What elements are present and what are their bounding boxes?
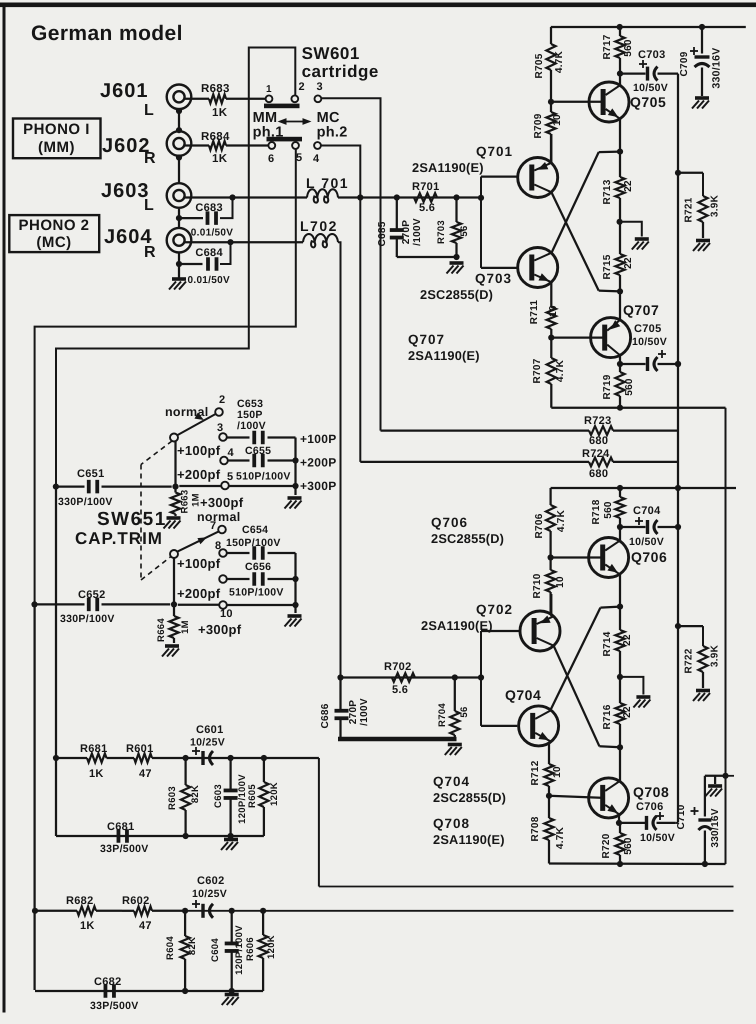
resistor R720 xyxy=(601,823,634,867)
resistor R724 xyxy=(360,448,678,480)
ground jack shells xyxy=(169,279,186,290)
switch SW651 pin9 xyxy=(219,575,227,583)
svg-text:Q704: Q704 xyxy=(433,774,470,789)
svg-text:C602: C602 xyxy=(197,875,225,887)
svg-text:L702: L702 xyxy=(300,218,338,234)
svg-text:R714: R714 xyxy=(602,631,613,656)
svg-text:C704: C704 xyxy=(633,505,661,517)
svg-text:R713: R713 xyxy=(602,179,613,204)
wire Q702/Q704 base link xyxy=(478,631,520,726)
svg-text:2SA1190(E): 2SA1190(E) xyxy=(412,160,484,175)
svg-text:330P/100V: 330P/100V xyxy=(60,613,115,625)
svg-text:+100P: +100P xyxy=(300,432,337,446)
svg-text:Q701: Q701 xyxy=(476,144,513,159)
wire bias to bus corner xyxy=(318,758,320,887)
svg-text:120P/100V: 120P/100V xyxy=(234,925,245,975)
capacitor C703 xyxy=(620,49,678,94)
svg-text:C703: C703 xyxy=(638,49,666,61)
svg-text:Q705: Q705 xyxy=(630,94,666,110)
svg-text:2SA1190(E): 2SA1190(E) xyxy=(408,348,480,363)
wire Q705 base xyxy=(551,101,604,103)
svg-text:560: 560 xyxy=(624,378,635,396)
svg-text:680: 680 xyxy=(589,468,608,480)
svg-text:3.9K: 3.9K xyxy=(710,194,721,217)
svg-text:330/16V: 330/16V xyxy=(710,808,721,847)
wire R702 input row xyxy=(337,674,481,680)
svg-text:R718: R718 xyxy=(591,499,602,524)
capacitor C654 row pin8 xyxy=(226,524,296,560)
wire R713/R715 mid to ground xyxy=(620,222,642,237)
svg-text:270P: 270P xyxy=(348,700,359,725)
resistor R712 xyxy=(530,760,563,799)
ground trim bus upper xyxy=(285,498,302,509)
trim bus lower xyxy=(292,553,298,613)
label +300P xyxy=(300,479,337,493)
label +200pf lower xyxy=(177,586,221,601)
wire Q702 emitter up xyxy=(550,594,552,616)
ground C604 xyxy=(222,995,239,1006)
svg-text:C682: C682 xyxy=(94,976,122,988)
switch SW601 direction arrow xyxy=(278,118,312,125)
svg-text:J601: J601 xyxy=(100,80,149,102)
capacitor C655 row pin4 xyxy=(228,445,296,483)
wire Q706 emitter down xyxy=(619,527,621,541)
svg-text:4: 4 xyxy=(228,447,235,459)
switch SW651 pin5 xyxy=(221,471,233,489)
capacitor C603 xyxy=(213,758,238,836)
wire C682 bottom row xyxy=(35,988,263,994)
connector J602 label xyxy=(102,135,156,167)
wire Q707 base xyxy=(551,336,605,338)
connector J602 xyxy=(167,131,192,156)
wire C686 bottom thick xyxy=(338,737,457,741)
wire Q702 collector diag xyxy=(554,646,620,747)
inductor L702 xyxy=(300,218,341,678)
switch SW601 pin5 xyxy=(292,142,302,164)
wire R663 node to pin5 xyxy=(179,485,221,487)
resistor R721 xyxy=(678,173,721,238)
wire pin4 to L701 node and R724 xyxy=(321,146,364,462)
svg-text:R605: R605 xyxy=(247,784,258,808)
transistor Q704 header xyxy=(433,774,506,805)
wire C685 bottom xyxy=(397,254,460,260)
svg-text:R664: R664 xyxy=(156,618,167,642)
label +300pf lower xyxy=(198,622,242,637)
capacitor C653 row pin3 xyxy=(227,398,296,444)
svg-text:1K: 1K xyxy=(212,107,228,119)
svg-text:Q707: Q707 xyxy=(408,332,445,347)
connector J604 xyxy=(167,228,192,253)
switch SW601 label xyxy=(302,44,379,81)
svg-text:0.01/50V: 0.01/50V xyxy=(191,228,233,239)
svg-text:R719: R719 xyxy=(602,374,613,399)
svg-text:C655: C655 xyxy=(245,445,271,457)
ground C709 xyxy=(692,98,709,109)
svg-text:C686: C686 xyxy=(320,703,331,728)
capacitor C686 xyxy=(320,678,370,740)
svg-text:+300pf: +300pf xyxy=(200,495,244,510)
transistor Q708 xyxy=(589,778,629,818)
wire Q701/Q703 base link xyxy=(481,177,518,268)
resistor R716 xyxy=(602,677,633,751)
svg-text:1K: 1K xyxy=(89,768,104,780)
transistor Q703 label xyxy=(420,271,512,302)
ground R714/R716 mid xyxy=(633,697,650,708)
svg-text:+200pf: +200pf xyxy=(177,467,221,482)
svg-text:R716: R716 xyxy=(602,704,613,729)
svg-text:C705: C705 xyxy=(634,323,662,335)
label +100pf lower xyxy=(177,556,221,571)
wire MM-R vertical x=35 xyxy=(32,604,38,990)
svg-text:10/50V: 10/50V xyxy=(640,832,675,844)
svg-text:C709: C709 xyxy=(679,51,690,76)
transistor Q706 xyxy=(589,538,629,578)
transistor Q702 header xyxy=(421,602,513,633)
svg-text:10/50V: 10/50V xyxy=(629,536,664,548)
svg-text:510P/100V: 510P/100V xyxy=(236,471,291,483)
transistor Q704 xyxy=(519,706,559,746)
resistor R682 xyxy=(35,895,122,932)
svg-text:(MM): (MM) xyxy=(38,139,75,156)
PHONO2 (MC) box xyxy=(9,215,99,252)
ground R722 xyxy=(693,691,710,702)
switch SW601 MC ph.2 label xyxy=(317,110,348,141)
svg-text:R: R xyxy=(144,150,156,167)
svg-text:R601: R601 xyxy=(126,743,154,755)
svg-text:5.6: 5.6 xyxy=(392,684,408,696)
svg-text:R705: R705 xyxy=(534,53,545,78)
svg-text:2: 2 xyxy=(219,394,225,406)
svg-text:330P/100V: 330P/100V xyxy=(58,496,113,508)
resistor R706 xyxy=(534,488,567,561)
wire mid bus xyxy=(319,886,734,888)
svg-text:normal: normal xyxy=(165,405,208,419)
switch SW601 pin4 xyxy=(313,142,321,165)
transistor Q708 label xyxy=(633,784,669,800)
resistor R663 xyxy=(171,487,202,516)
svg-text:10/50V: 10/50V xyxy=(632,336,667,348)
resistor R605 xyxy=(247,758,280,836)
svg-text:cartridge: cartridge xyxy=(302,62,379,81)
label 120P/100V lower xyxy=(234,925,245,975)
transistor Q701 xyxy=(518,158,558,198)
wire wiper lower to R664 node xyxy=(173,558,175,604)
resistor R684 xyxy=(185,131,269,165)
svg-text:Q706: Q706 xyxy=(631,549,667,565)
wire Q706 collector down xyxy=(617,574,623,610)
svg-text:6: 6 xyxy=(268,153,274,165)
capacitor C602 xyxy=(192,875,227,918)
wire pin5 down to MM-R row xyxy=(35,149,296,605)
resistor R664 xyxy=(156,604,191,643)
svg-text:R708: R708 xyxy=(530,816,541,841)
label +200pf upper xyxy=(177,467,221,482)
label +300pf upper xyxy=(200,495,244,510)
capacitor C656 row pin9 xyxy=(227,561,296,599)
svg-text:C681: C681 xyxy=(107,821,135,833)
svg-text:7: 7 xyxy=(210,520,216,532)
svg-text:4.7K: 4.7K xyxy=(555,359,566,382)
wire MM-L vertical x=56 xyxy=(53,487,59,836)
svg-text:+300P: +300P xyxy=(300,479,337,493)
wire Q705 emitter down xyxy=(617,118,623,155)
ground R713/R715 mid xyxy=(632,239,649,250)
ground trim bus lower xyxy=(285,616,302,627)
resistor R715 xyxy=(602,222,634,295)
svg-text:R707: R707 xyxy=(532,358,543,383)
capacitor C709 xyxy=(679,27,723,96)
switch SW601 pin2 xyxy=(291,81,305,102)
switch SW651 linkage dashed xyxy=(141,441,172,580)
svg-text:+200pf: +200pf xyxy=(177,586,221,601)
wire Q701 collector diag xyxy=(552,193,620,292)
resistor R705 xyxy=(534,27,565,105)
switch SW651 pin7 xyxy=(210,520,226,533)
wire Q708 emitter down xyxy=(616,814,622,826)
capacitor C706 xyxy=(619,801,676,844)
svg-text:+100pf: +100pf xyxy=(177,556,221,571)
svg-text:R604: R604 xyxy=(165,936,176,960)
resistor R704 xyxy=(437,678,470,740)
ground R664 xyxy=(162,646,179,657)
ground C686/R704 xyxy=(445,745,462,756)
svg-text:PHONO 2: PHONO 2 xyxy=(18,217,89,234)
capacitor C683 xyxy=(179,198,233,239)
svg-text:R715: R715 xyxy=(602,254,613,279)
resistor R713 xyxy=(602,152,634,225)
svg-text:4.7K: 4.7K xyxy=(556,509,567,532)
svg-text:L: L xyxy=(144,197,154,214)
svg-text:C654: C654 xyxy=(242,524,268,536)
svg-text:C604: C604 xyxy=(210,938,221,962)
ground C603 xyxy=(221,840,238,851)
svg-text:R704: R704 xyxy=(437,703,448,727)
ground C685/R703 xyxy=(447,263,464,274)
capacitor C681 xyxy=(100,821,149,855)
switch SW651 pin10 xyxy=(219,601,233,620)
svg-text:10/50V: 10/50V xyxy=(633,82,668,94)
svg-text:(MC): (MC) xyxy=(36,234,71,251)
svg-text:Q708: Q708 xyxy=(433,816,470,831)
capacitor C705 xyxy=(620,350,681,371)
label +100pf upper xyxy=(177,443,221,458)
svg-text:C684: C684 xyxy=(195,247,223,259)
switch SW651 pin3 xyxy=(217,422,227,441)
svg-text:C706: C706 xyxy=(636,801,664,813)
capacitor C604 xyxy=(210,911,239,991)
switch SW601 contact bar 6-5 xyxy=(267,137,303,142)
svg-text:10: 10 xyxy=(220,608,233,620)
svg-text:R712: R712 xyxy=(530,760,541,785)
wire Q703 collector diag xyxy=(552,152,620,253)
svg-text:10/25V: 10/25V xyxy=(190,737,225,749)
transistor Q705 label xyxy=(630,94,666,110)
resistor R701 xyxy=(412,181,440,214)
wire R707/R719 bottom rail xyxy=(551,407,725,409)
PHONO1 (MM) box xyxy=(13,119,101,159)
wire Q703 emitter down xyxy=(550,282,552,302)
resistor R718 xyxy=(591,488,625,530)
trim bus upper xyxy=(292,438,298,496)
resistor R606 xyxy=(245,911,277,991)
capacitor C652 xyxy=(31,589,177,625)
wire lower bottom rail xyxy=(549,861,726,867)
transistor Q704 label xyxy=(505,687,541,703)
svg-text:C601: C601 xyxy=(196,724,224,736)
switch SW651 pin2 xyxy=(215,394,225,416)
resistor R703 xyxy=(436,198,470,258)
svg-text:R717: R717 xyxy=(602,34,613,59)
svg-text:PHONO I: PHONO I xyxy=(23,121,90,138)
svg-text:R706: R706 xyxy=(534,513,545,538)
switch SW651 wiper lower xyxy=(170,531,219,558)
svg-text:+200P: +200P xyxy=(300,456,337,470)
transistor Q702 xyxy=(520,611,560,651)
svg-text:33P/500V: 33P/500V xyxy=(100,843,149,855)
resistor R601 xyxy=(123,743,183,780)
svg-text:10: 10 xyxy=(552,766,563,778)
svg-text:5: 5 xyxy=(227,471,233,483)
svg-text:560: 560 xyxy=(623,39,634,57)
svg-text:R602: R602 xyxy=(122,895,150,907)
svg-text:ph.1: ph.1 xyxy=(253,125,284,141)
wire SW601 pin2 loop to pin1 wire xyxy=(249,48,295,99)
connector J603 xyxy=(167,183,192,208)
svg-text:1: 1 xyxy=(266,84,272,95)
svg-text:1K: 1K xyxy=(80,920,95,932)
svg-text:10/25V: 10/25V xyxy=(192,888,227,900)
transistor Q703 xyxy=(518,248,558,288)
transistor Q707 header xyxy=(408,332,480,363)
label +100P xyxy=(300,432,337,446)
svg-text:150P/100V: 150P/100V xyxy=(226,537,281,549)
svg-text:3: 3 xyxy=(217,422,223,434)
capacitor C601 xyxy=(190,724,225,765)
connector J603 label xyxy=(101,180,154,214)
svg-text:C603: C603 xyxy=(213,784,224,808)
svg-text:R682: R682 xyxy=(66,895,94,907)
svg-text:German model: German model xyxy=(31,22,183,45)
capacitor C684 xyxy=(179,242,231,286)
svg-text:R711: R711 xyxy=(529,300,540,325)
switch SW601 pin1 xyxy=(266,84,273,102)
resistor R719 xyxy=(602,364,635,411)
svg-text:R709: R709 xyxy=(533,113,544,138)
switch SW651 normal label lower xyxy=(197,510,240,524)
wire R664 node to pin10 xyxy=(178,604,219,606)
svg-text:8: 8 xyxy=(215,540,221,552)
svg-text:R721: R721 xyxy=(684,197,695,222)
wire wiper to R663 node xyxy=(174,442,176,487)
switch SW651 pin8 xyxy=(215,540,227,557)
resistor R709 xyxy=(533,102,563,163)
svg-text:270P: 270P xyxy=(401,220,412,245)
svg-text:5: 5 xyxy=(296,152,302,164)
switch SW601 pin6 xyxy=(268,142,275,165)
wire J604 to L702 xyxy=(185,239,303,245)
svg-text:R683: R683 xyxy=(201,83,230,95)
resistor R714 xyxy=(602,607,633,680)
svg-text:56: 56 xyxy=(459,706,470,717)
wire L701 to Q701 base node xyxy=(360,194,484,201)
wire C706 up to output bus xyxy=(676,822,678,824)
resistor R681 xyxy=(56,743,123,780)
svg-text:0.01/50V: 0.01/50V xyxy=(188,275,230,286)
switch SW601 pin3 xyxy=(315,81,323,102)
svg-text:/100V: /100V xyxy=(237,420,266,432)
svg-text:680: 680 xyxy=(589,435,608,447)
wire R714/R716 mid to ground xyxy=(620,677,643,695)
wire to Q707 emitter xyxy=(619,291,621,320)
inductor L701 xyxy=(306,175,360,203)
svg-text:C685: C685 xyxy=(377,221,388,246)
svg-text:R681: R681 xyxy=(80,743,108,755)
switch SW651 label xyxy=(75,509,167,548)
capacitor C710 xyxy=(676,776,721,864)
transistor Q701 label xyxy=(412,144,513,175)
svg-text:3: 3 xyxy=(317,81,323,93)
svg-text:C651: C651 xyxy=(77,468,105,480)
svg-text:Q706: Q706 xyxy=(431,515,468,530)
transistor Q707 label xyxy=(623,302,659,318)
transistor Q706 label xyxy=(631,549,667,565)
ground R721 xyxy=(693,241,710,252)
svg-text:CAP.TRIM: CAP.TRIM xyxy=(75,529,163,548)
svg-text:Q708: Q708 xyxy=(633,784,669,800)
wire top supply rail xyxy=(551,24,746,30)
svg-text:+100pf: +100pf xyxy=(177,443,221,458)
wire row pin10 to bus xyxy=(227,604,296,606)
wire lower supply rail xyxy=(551,485,736,491)
switch SW651 wiper upper xyxy=(170,413,216,442)
svg-text:2SA1190(E): 2SA1190(E) xyxy=(433,832,505,847)
wire jack shell chain xyxy=(176,108,182,278)
switch SW601 MM ph.1 label xyxy=(253,110,284,141)
capacitor C704 xyxy=(620,505,678,548)
svg-text:2SC2855(D): 2SC2855(D) xyxy=(431,531,504,546)
svg-text:R723: R723 xyxy=(584,415,612,427)
capacitor C685 xyxy=(377,198,423,258)
resistor R723 xyxy=(381,415,679,447)
svg-text:120K: 120K xyxy=(269,782,280,806)
connector J601 label xyxy=(100,80,154,119)
resistor R717 xyxy=(602,27,634,77)
svg-text:R603: R603 xyxy=(167,786,178,810)
wire C710 top to ground tap xyxy=(705,776,734,784)
capacitor C651 xyxy=(53,468,179,508)
border left xyxy=(3,3,6,1013)
resistor R683 xyxy=(185,83,266,119)
svg-text:47: 47 xyxy=(139,768,152,780)
resistor R702 xyxy=(384,661,415,696)
transistor Q706 header xyxy=(431,515,504,546)
svg-text:/100V: /100V xyxy=(359,698,370,726)
wire pin1-net down to MM-L row xyxy=(56,99,249,487)
svg-text:C710: C710 xyxy=(676,804,687,829)
svg-text:560: 560 xyxy=(603,501,614,519)
svg-text:SW651: SW651 xyxy=(97,509,167,530)
wire Q708 base xyxy=(549,796,604,798)
connector J604 label xyxy=(104,226,156,261)
resistor R722 xyxy=(678,626,721,688)
svg-text:330/16V: 330/16V xyxy=(711,47,723,88)
svg-text:R: R xyxy=(144,244,156,261)
svg-text:33P/500V: 33P/500V xyxy=(90,1000,139,1012)
svg-text:2SC2855(D): 2SC2855(D) xyxy=(420,287,493,302)
transistor Q705 xyxy=(589,82,629,122)
resistor R604 xyxy=(165,911,198,991)
wire Q706 base xyxy=(551,556,604,558)
